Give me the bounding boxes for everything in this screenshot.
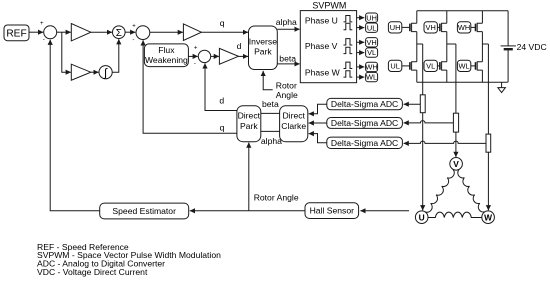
gate drive box UL [388,60,401,71]
svg-text:Phase U: Phase U [305,15,338,25]
Hall Sensor block [305,203,359,219]
wire ADC 3 to Direct Clarke [309,134,327,143]
svg-text:-: - [132,38,134,44]
wire Hall Sensor to Speed Estimator [190,210,305,212]
amplifier A3 (q regulator) [183,24,201,41]
half-bridge leg V vertical [446,11,448,83]
gate drive box VL [424,60,437,71]
signal box UH [366,13,378,22]
svg-text:Inverse: Inverse [249,37,277,47]
svg-text:WH: WH [365,63,377,72]
svg-text:Phase W: Phase W [305,67,341,77]
summer sigma [113,26,126,39]
wire UH box to gate [402,26,410,28]
svg-text:Park: Park [240,121,258,131]
wire ADC 1 to Direct Clarke [309,104,327,114]
wire sigma to summing junction S2 [125,31,135,33]
phase V tap jog [447,43,456,45]
svg-text:Park: Park [254,47,272,57]
pulse waveform U high [344,16,353,22]
Flux Weakening block [144,44,188,67]
svg-text:REF: REF [6,28,26,39]
half-bridge leg W vertical [481,11,483,83]
wire SVPWM to VL signal box [357,52,365,54]
wire UL box to gate [402,65,410,67]
wire WH box to gate [471,26,476,28]
phase U tap jog [417,43,423,45]
Delta-Sigma ADC 3 [327,137,403,148]
Inverse Park block [249,26,278,70]
svg-text:Delta-Sigma ADC: Delta-Sigma ADC [331,118,398,128]
amplifier A4 (d regulator) [219,48,238,64]
Speed Estimator block [100,203,189,219]
svg-text:+: + [194,45,198,51]
Direct Clarke block [280,106,308,142]
summing junction S1 (speed error) [40,21,57,43]
wire shunt RV to ADC 2 (hop over U line) [404,121,454,123]
wire A1 to sigma [91,31,112,33]
ground symbol [498,82,506,92]
transistor QUH [409,24,411,32]
wire A2 to integrator [91,71,99,73]
wire VH box to gate [437,26,440,28]
rotor angle leader into Inverse Park [263,71,273,90]
motor winding U-W [428,212,482,217]
pulse waveform W high [344,62,353,68]
shunt resistor RU [420,95,425,113]
wire S3 to amplifier A4 [211,55,219,57]
pulse waveform V low [344,47,353,53]
wire alpha to SVPWM [277,28,299,30]
transistor QWH [475,24,477,32]
svg-text:-: - [194,61,196,67]
transistor QUL [409,62,411,70]
amplifier A1 (proportional) [71,24,91,41]
svg-text:Delta-Sigma ADC: Delta-Sigma ADC [331,99,398,109]
svg-text:q: q [220,18,225,28]
svg-text:Angle: Angle [276,90,298,100]
svg-text:VL: VL [426,62,435,71]
signal box VL [366,48,378,57]
transistor QVL [439,62,441,70]
wire d feedback Park to S3 [205,63,237,110]
phase V line to motor [455,44,457,157]
signal box WL [366,72,378,81]
motor terminal W [482,211,495,224]
summing junction S3 (d current error) [194,45,211,67]
svg-text:VH: VH [426,23,436,32]
svg-text:UL: UL [390,62,399,71]
wire alpha Clarke to Park [261,130,280,132]
svg-text:SVPWM: SVPWM [312,0,346,10]
svg-text:d: d [219,96,224,106]
svg-text:UH: UH [390,23,401,32]
svg-text:Rotor Angle: Rotor Angle [254,192,299,202]
svg-text:UH: UH [366,13,377,22]
pulse waveform V high [344,39,353,45]
wire SVPWM to WL signal box [357,76,365,78]
svg-text:Delta-Sigma ADC: Delta-Sigma ADC [331,138,398,148]
signal box WH [365,62,377,71]
Delta-Sigma ADC 1 [327,98,403,109]
wire motor U node to Hall Sensor [360,210,409,212]
half-bridge leg U vertical [416,11,418,83]
Delta-Sigma ADC 2 [327,118,403,129]
wire SVPWM to UL signal box [357,27,365,29]
gate drive box UH [388,22,401,33]
wire SVPWM to UH signal box [357,17,365,19]
DC bus bottom rail [417,81,508,83]
wire beta Clarke to Park [261,112,280,114]
DC bus top rail [417,10,508,12]
wire shunt RW to ADC 3 (hops over U and V lines) [404,141,486,143]
svg-text:Σ: Σ [116,28,122,39]
Direct Park block [237,106,261,142]
svg-text:WL: WL [459,62,470,71]
motor winding U-V [425,169,454,212]
svg-text:VH: VH [366,38,376,47]
svg-text:WL: WL [366,73,377,82]
svg-text:Flux: Flux [158,45,175,55]
svg-text:V: V [453,159,459,169]
svg-text:VL: VL [367,48,376,57]
wire Speed Estimator to S1 [50,40,99,211]
signal box UL [366,23,378,32]
wire branch to lower integral path [62,32,71,72]
integrator block [99,66,112,80]
REF box [4,25,29,41]
svg-text:Direct: Direct [282,111,305,121]
motor terminal V [450,158,463,171]
shunt resistor RV [453,113,458,132]
transistor QVH [439,24,441,32]
svg-text:Hall Sensor: Hall Sensor [310,206,355,216]
gate drive box WL [457,60,470,71]
gate drive box VH [424,22,437,33]
pulse waveform W low [344,71,353,77]
pulse waveform U low [344,23,353,29]
wire integrator to sigma [112,39,119,72]
svg-text:-: - [43,37,45,43]
phase W tap jog [482,43,488,45]
wire Flux Weakening to summing junction S3 [188,55,197,57]
svg-text:U: U [419,212,425,222]
wire beta to SVPWM [277,63,299,65]
svg-text:24 VDC: 24 VDC [517,42,547,52]
svg-text:WH: WH [458,23,470,32]
svg-text:beta: beta [279,53,296,63]
phase W line to motor [487,44,489,210]
motor terminal U [415,211,428,224]
phase U line to motor [422,44,424,210]
battery 24 VDC [501,11,547,83]
svg-text:q: q [220,123,225,133]
svg-text:alpha: alpha [261,136,282,146]
signal box VH [366,38,378,47]
svg-text:W: W [484,212,492,222]
wire VL box to gate [437,65,440,67]
wire REF to summing junction [29,31,43,33]
svg-text:alpha: alpha [276,17,297,27]
svg-text:Rotor: Rotor [276,80,297,90]
svg-text:+: + [40,21,44,27]
svg-text:Direct: Direct [238,111,261,121]
svg-text:beta: beta [262,99,279,109]
wire rotor angle to Direct Park [248,143,250,211]
amplifier A2 (integral gain) [71,64,91,80]
wire S1 to amplifier A1 [57,31,71,33]
motor winding V-W [458,169,485,212]
svg-text:+: + [132,24,136,30]
svg-text:UL: UL [367,23,376,32]
wire SVPWM to VH signal box [357,41,365,43]
wire A4 to Inverse Park, node d [238,55,248,57]
svg-text:VDC - Voltage Direct Current: VDC - Voltage Direct Current [37,267,148,277]
svg-text:Weakening: Weakening [145,55,188,65]
wire S2 to amplifier A3 [150,31,183,33]
summing junction S2 (q current error) [132,24,150,44]
svg-text:Speed Estimator: Speed Estimator [112,206,176,216]
SVPWM block [300,0,356,82]
svg-text:Clarke: Clarke [281,121,306,131]
svg-text:d: d [237,41,242,51]
wire A3 to Inverse Park, node q [201,31,248,33]
wire ADC 2 to Direct Clarke [309,122,327,124]
transistor QWL [475,62,477,70]
wire WL box to gate [471,65,476,67]
gate drive box WH [457,22,470,33]
wire SVPWM to WH signal box [357,66,365,68]
svg-text:Phase V: Phase V [305,41,338,51]
wire q feedback Park to S2 [143,40,237,133]
wire shunt RU to ADC 1 [404,103,421,105]
shunt resistor RW [486,134,491,152]
